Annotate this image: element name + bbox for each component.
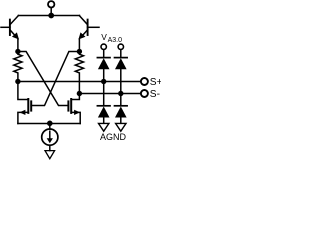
wire: S- net <box>79 93 140 95</box>
svg-text:AGND: AGND <box>100 132 127 142</box>
node F (S+ / D1 / D3) <box>101 79 106 84</box>
terminal VA3.0 (right) <box>118 44 123 49</box>
resistor R1 <box>14 52 22 82</box>
node D (R2 bottom / M2 drain / S- net) <box>77 91 82 96</box>
diode D3 (AGND to S+) <box>97 106 110 124</box>
node: rail junction <box>48 13 54 19</box>
node A (Q1 emitter / R1 top) <box>15 49 20 54</box>
wire: cross-couple node A to M2 gate <box>18 52 69 106</box>
wire: terminal to D2 <box>120 50 122 57</box>
transistor Q2 <box>78 16 99 40</box>
svg-text:S+: S+ <box>150 77 161 88</box>
node G (S- / D2 / D4) <box>118 91 123 96</box>
wire: cross-couple node B to M1 gate <box>31 52 79 106</box>
wire: terminal to D1 <box>103 50 105 57</box>
node B (Q2 emitter / R2 top) <box>77 49 82 54</box>
terminal VCC <box>48 1 54 7</box>
svg-text:V: V <box>101 32 107 42</box>
terminal S+ <box>141 78 148 85</box>
svg-text:A3.0: A3.0 <box>108 37 123 44</box>
current source I1 <box>42 124 58 151</box>
terminal S- <box>141 90 148 97</box>
ground AGND (right) <box>116 123 126 131</box>
wire: Q1 emitter down <box>17 39 19 52</box>
wire: terminal to rail <box>50 8 52 16</box>
transistor Q1 <box>1 16 19 40</box>
diode D4 (AGND to S-) <box>115 106 128 124</box>
diode D2 (S- to VA3.0) <box>115 58 128 94</box>
wire: top rail <box>18 15 79 17</box>
resistor R2 <box>75 52 83 94</box>
wire: S+ net <box>18 81 140 83</box>
wire: node G down to D4 <box>120 94 122 105</box>
wire: node F down to D3 <box>103 82 105 105</box>
ground AGND (left) <box>99 123 109 131</box>
diode D1 (S+ to VA3.0) <box>97 58 110 82</box>
node E (tail) <box>47 121 53 127</box>
wire: Q2 emitter down <box>78 39 80 52</box>
transistor M1 <box>18 82 31 124</box>
transistor M2 <box>68 94 80 124</box>
terminal VA3.0 (left) <box>101 44 106 49</box>
wire: common source rail <box>18 123 80 125</box>
ground (tail) <box>45 151 55 159</box>
node C (R1 bottom / M1 drain / S+ net) <box>15 79 20 84</box>
svg-text:S-: S- <box>150 89 160 100</box>
